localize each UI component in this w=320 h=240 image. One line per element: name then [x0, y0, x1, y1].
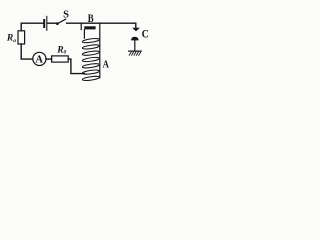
- svg-text:S: S: [63, 10, 69, 21]
- svg-text:R0: R0: [56, 45, 66, 55]
- svg-text:A: A: [103, 59, 109, 71]
- svg-text:C: C: [142, 29, 149, 41]
- svg-text:Ra: Ra: [6, 34, 16, 44]
- svg-text:B: B: [88, 11, 94, 25]
- svg-text:A: A: [35, 55, 43, 66]
